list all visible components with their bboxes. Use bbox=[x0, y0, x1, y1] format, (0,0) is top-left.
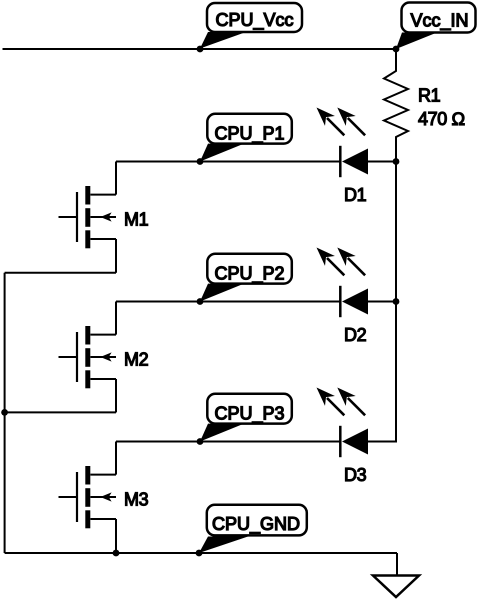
label CPU_P2 bbox=[200, 254, 292, 302]
label CPU_P3 bbox=[200, 394, 292, 442]
transistor M1 bbox=[59, 186, 149, 248]
node D2 junction dot bbox=[393, 298, 400, 305]
label CPU_Vcc bbox=[200, 3, 302, 49]
wire M2 source horizontal bbox=[5, 411, 116, 413]
wire row1 right bbox=[368, 161, 396, 163]
wire M1 drain vertical bbox=[115, 162, 117, 195]
label Vcc_IN bbox=[396, 3, 476, 50]
node M3 source junction dot bbox=[113, 550, 120, 557]
wire row1 left bbox=[116, 161, 340, 163]
svg-text:CPU_P3: CPU_P3 bbox=[214, 403, 284, 424]
node CPU_Vcc attach dot bbox=[197, 46, 204, 53]
wire M2 drain vertical bbox=[115, 302, 117, 335]
diode D1 (LED) bbox=[317, 108, 369, 206]
transistor M2 bbox=[59, 326, 149, 388]
svg-text:CPU_P1: CPU_P1 bbox=[214, 123, 284, 144]
transistor M3 bbox=[59, 466, 149, 528]
node Vcc_IN junction dot bbox=[393, 46, 400, 53]
svg-text:CPU_GND: CPU_GND bbox=[212, 514, 300, 535]
svg-text:D3: D3 bbox=[344, 465, 367, 485]
wire row3 right bbox=[368, 441, 397, 443]
wire right bus bbox=[395, 137, 397, 442]
node left bus junction dot bbox=[1, 409, 8, 416]
wire ground stub bbox=[396, 553, 398, 576]
wire M3 source vertical bbox=[115, 519, 117, 553]
svg-text:Vcc_IN: Vcc_IN bbox=[410, 11, 468, 32]
svg-text:CPU_Vcc: CPU_Vcc bbox=[215, 10, 293, 31]
label CPU_GND bbox=[199, 505, 307, 553]
svg-text:470 Ω: 470 Ω bbox=[418, 109, 465, 129]
wire M3 drain vertical bbox=[115, 442, 117, 475]
svg-text:M1: M1 bbox=[124, 210, 149, 230]
node CPU_GND attach dot bbox=[196, 550, 203, 557]
svg-text:R1: R1 bbox=[418, 86, 441, 106]
wire M2 source vertical bbox=[115, 379, 117, 412]
wire row2 left bbox=[116, 301, 340, 303]
diode D3 (LED) bbox=[317, 388, 369, 486]
node CPU_P3 attach dot bbox=[197, 438, 204, 445]
label CPU_P1 bbox=[200, 114, 292, 162]
node D1 junction dot bbox=[393, 158, 400, 165]
wire row3 left bbox=[116, 441, 340, 443]
svg-text:D1: D1 bbox=[344, 185, 367, 205]
node CPU_P2 attach dot bbox=[197, 298, 204, 305]
svg-text:CPU_P2: CPU_P2 bbox=[214, 263, 284, 284]
wire top Vcc rail bbox=[3, 48, 397, 50]
svg-text:M2: M2 bbox=[124, 350, 149, 370]
svg-text:M3: M3 bbox=[124, 490, 149, 510]
wire M1 source vertical bbox=[115, 239, 117, 273]
wire bottom ground rail bbox=[5, 552, 397, 554]
ground bbox=[373, 576, 419, 598]
svg-text:D2: D2 bbox=[344, 325, 367, 345]
wire left bus bbox=[4, 273, 6, 553]
wire row2 right bbox=[368, 301, 396, 303]
diode D2 (LED) bbox=[317, 248, 369, 346]
resistor R1 bbox=[384, 49, 408, 162]
wire M1 source horizontal bbox=[5, 272, 116, 274]
node CPU_P1 attach dot bbox=[197, 158, 204, 165]
